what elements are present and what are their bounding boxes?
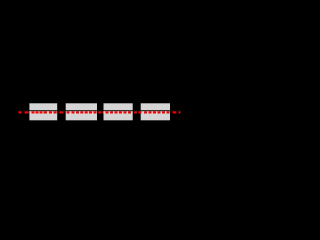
component box 3: [104, 103, 133, 120]
component box 1: [29, 103, 57, 120]
component box 4: [141, 103, 170, 120]
red dashed line: [19, 111, 181, 113]
wire (solid dark horizontal line across boxes): [18, 110, 181, 111]
component box 2: [66, 103, 97, 120]
